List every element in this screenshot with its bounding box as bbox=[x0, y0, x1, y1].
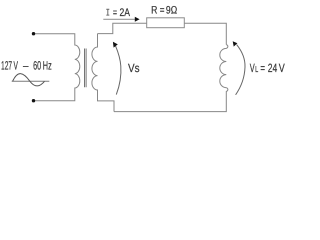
svg-text:–: – bbox=[23, 58, 29, 72]
svg-text:R: R bbox=[151, 4, 157, 16]
svg-text:127: 127 bbox=[1, 58, 12, 72]
svg-text:60: 60 bbox=[33, 58, 41, 72]
svg-text:=: = bbox=[160, 4, 165, 16]
svg-text:24: 24 bbox=[268, 61, 278, 75]
svg-text:V: V bbox=[14, 58, 18, 72]
svg-text:9Ω: 9Ω bbox=[166, 4, 177, 16]
svg-text:V: V bbox=[279, 61, 285, 75]
svg-text:2A: 2A bbox=[120, 7, 131, 19]
svg-text:Vs: Vs bbox=[128, 61, 140, 75]
svg-text:=: = bbox=[260, 61, 265, 75]
svg-text:L: L bbox=[255, 64, 258, 74]
svg-text:=: = bbox=[113, 7, 117, 19]
svg-text:V: V bbox=[250, 61, 255, 75]
svg-text:Hz: Hz bbox=[43, 58, 52, 72]
